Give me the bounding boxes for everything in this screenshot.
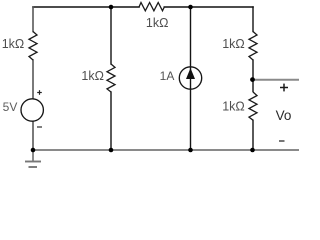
svg-text:Vo: Vo [276, 108, 292, 123]
svg-text:1kΩ: 1kΩ [222, 37, 245, 51]
svg-text:1kΩ: 1kΩ [2, 37, 25, 51]
svg-text:1kΩ: 1kΩ [146, 16, 169, 30]
svg-text:5V: 5V [3, 100, 18, 114]
svg-text:1A: 1A [160, 69, 175, 83]
svg-text:1kΩ: 1kΩ [222, 99, 245, 113]
svg-text:1kΩ: 1kΩ [81, 69, 104, 83]
